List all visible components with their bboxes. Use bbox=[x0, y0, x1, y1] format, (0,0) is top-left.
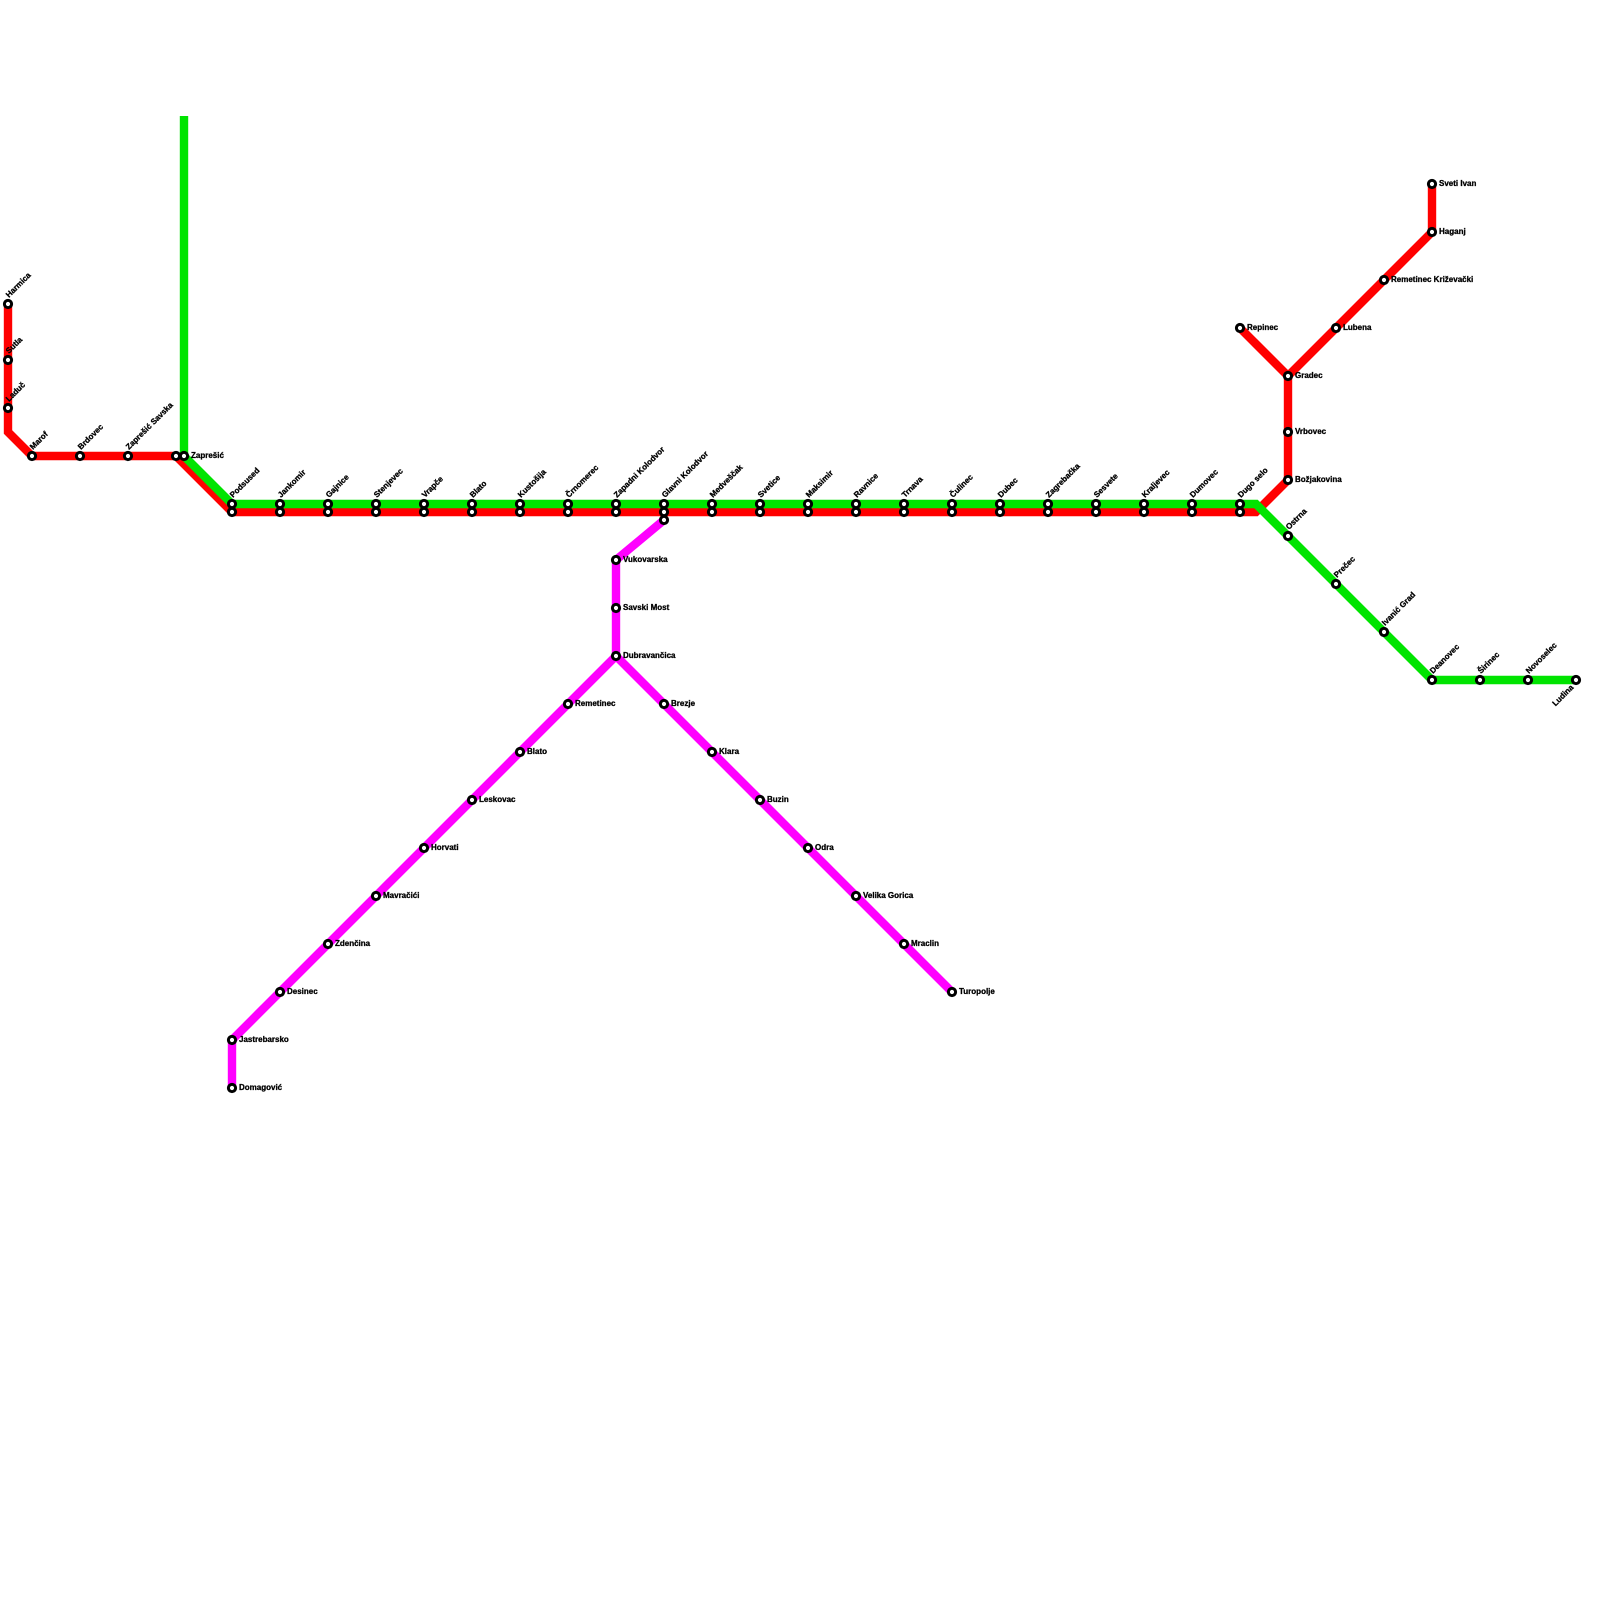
station Svetice (760,504) bbox=[756, 473, 783, 508]
svg-text:Haganj: Haganj bbox=[1439, 227, 1466, 236]
station Velika Gorica (856,896) bbox=[852, 891, 913, 900]
station Mraclin (904,944) bbox=[900, 939, 939, 948]
station Prečec (1336,584) bbox=[1332, 554, 1357, 587]
station Zaprešić (184,456) bbox=[180, 451, 224, 460]
station Zapadni Kolodvor (616,504) bbox=[612, 445, 666, 508]
station stop (808,512) bbox=[804, 508, 811, 515]
station Ravnice (856,504) bbox=[852, 471, 880, 508]
station Dubravančica (616,656) bbox=[612, 651, 676, 660]
station stop (1000,512) bbox=[996, 508, 1003, 515]
station Kustošija (520,504) bbox=[516, 467, 548, 507]
magenta line Zagreb-Jastrebarsko/Turopolje main branch bbox=[232, 520, 664, 1088]
svg-text:Vrbovec: Vrbovec bbox=[1295, 427, 1327, 436]
station stop (1144,512) bbox=[1140, 508, 1147, 515]
svg-text:Dubravančica: Dubravančica bbox=[623, 651, 676, 660]
station stop (232,512) bbox=[228, 508, 235, 515]
station stop (664,520) bbox=[660, 516, 667, 523]
station Ostrna (1288,536) bbox=[1284, 506, 1309, 539]
station Desinec (280,992) bbox=[276, 987, 318, 996]
svg-text:Remetinec Križevački: Remetinec Križevački bbox=[1391, 275, 1473, 284]
station Brezje (664,704) bbox=[660, 699, 695, 708]
svg-text:Odra: Odra bbox=[815, 843, 834, 852]
station stop (712,512) bbox=[708, 508, 715, 515]
station Sutla (8,360) bbox=[4, 335, 25, 364]
station Medveščak (712,504) bbox=[708, 462, 745, 507]
station Dubec (1000,504) bbox=[996, 475, 1020, 507]
station Jankomir (280,504) bbox=[276, 468, 308, 508]
svg-text:Božjakovina: Božjakovina bbox=[1295, 475, 1342, 484]
svg-text:Mraclin: Mraclin bbox=[911, 939, 939, 948]
station Remetinec (568,704) bbox=[564, 699, 616, 708]
station stop (328,512) bbox=[324, 508, 331, 515]
station Dugo selo (1240,504) bbox=[1236, 466, 1270, 508]
station Vrbovec (1288,432) bbox=[1284, 427, 1326, 436]
svg-text:Turopolje: Turopolje bbox=[959, 987, 995, 996]
station stop (1192,512) bbox=[1188, 508, 1195, 515]
station Buzin (760,800) bbox=[756, 795, 788, 804]
station Brdovec (80,456) bbox=[76, 422, 105, 460]
station Deanovec (1432,680) bbox=[1428, 642, 1461, 684]
station Savski Most (616,608) bbox=[612, 603, 669, 612]
svg-text:Savski Most: Savski Most bbox=[623, 603, 670, 612]
green line Zapresic-Ludina bbox=[184, 116, 1576, 680]
station Novoselec (1528,680) bbox=[1524, 640, 1559, 683]
svg-text:Lubena: Lubena bbox=[1343, 323, 1372, 332]
station Širinec (1480,680) bbox=[1476, 650, 1502, 684]
station Laduč (8,408) bbox=[4, 380, 27, 412]
station Blato (472,504) bbox=[468, 479, 489, 508]
red line Harmica-Sveti Ivan bbox=[8, 184, 1432, 512]
svg-text:Sveti Ivan: Sveti Ivan bbox=[1439, 179, 1476, 188]
svg-text:Jastrebarsko: Jastrebarsko bbox=[239, 1035, 289, 1044]
station Zdenčina (328,944) bbox=[324, 939, 370, 948]
svg-text:Gradec: Gradec bbox=[1295, 371, 1323, 380]
station stop (568,512) bbox=[564, 508, 571, 515]
station stop (856,512) bbox=[852, 508, 859, 515]
svg-text:Repinec: Repinec bbox=[1247, 323, 1279, 332]
station Sesvete (1096,504) bbox=[1092, 471, 1120, 507]
svg-text:Klara: Klara bbox=[719, 747, 740, 756]
station stop (1048,512) bbox=[1044, 508, 1051, 515]
station Harmica (8,304) bbox=[4, 270, 33, 307]
station stop (952,512) bbox=[948, 508, 955, 515]
station Repinec (1240,328) bbox=[1236, 323, 1278, 332]
station Trnava (904,504) bbox=[900, 474, 925, 507]
station stop (424,512) bbox=[420, 508, 427, 515]
svg-text:Blato: Blato bbox=[527, 747, 547, 756]
station Sveti Ivan (1432,184) bbox=[1428, 179, 1476, 188]
station Turopolje (952,992) bbox=[948, 987, 995, 996]
station stop (1240,512) bbox=[1236, 508, 1243, 515]
station Zagrebačka (1048,504) bbox=[1044, 461, 1082, 507]
svg-text:Mavračići: Mavračići bbox=[383, 891, 419, 900]
station stop (176,456) bbox=[172, 452, 179, 459]
station Domagović (232,1088) bbox=[228, 1083, 282, 1092]
svg-text:Vukovarska: Vukovarska bbox=[623, 555, 668, 564]
station stop (616,512) bbox=[612, 508, 619, 515]
svg-text:Remetinec: Remetinec bbox=[575, 699, 616, 708]
svg-text:Zdenčina: Zdenčina bbox=[335, 939, 371, 948]
station Remetinec Križevački (1384,280) bbox=[1380, 275, 1473, 284]
station Jastrebarsko (232,1040) bbox=[228, 1035, 289, 1044]
svg-text:Velika Gorica: Velika Gorica bbox=[863, 891, 914, 900]
station Kraljevec (1144,504) bbox=[1140, 468, 1172, 508]
station Ludina (1576,680) bbox=[1551, 676, 1580, 708]
svg-text:Leskovac: Leskovac bbox=[479, 795, 516, 804]
station Klara (712,752) bbox=[708, 747, 739, 756]
station stop (472,512) bbox=[468, 508, 475, 515]
station Zaprešić Savska (128,456) bbox=[124, 400, 175, 459]
station Gradec (1288,376) bbox=[1284, 371, 1323, 380]
station stop (280,512) bbox=[276, 508, 283, 515]
station Blato (520,752) bbox=[516, 747, 547, 756]
station Haganj (1432,232) bbox=[1428, 227, 1465, 236]
magenta line Turopolje branch bbox=[616, 656, 952, 992]
station stop (760,512) bbox=[756, 508, 763, 515]
station Podsused (232,504) bbox=[228, 466, 261, 508]
station Marof (32,456) bbox=[28, 429, 50, 459]
svg-text:Zaprešić: Zaprešić bbox=[191, 451, 224, 460]
station Glavni Kolodvor (664,504) bbox=[660, 449, 710, 507]
station stop (664,512) bbox=[660, 508, 667, 515]
station Črnomerec (568,504) bbox=[564, 463, 601, 508]
svg-text:Horvati: Horvati bbox=[431, 843, 459, 852]
svg-text:Domagović: Domagović bbox=[239, 1083, 283, 1092]
station Maksimir (808,504) bbox=[804, 469, 835, 508]
station Lubena (1336,328) bbox=[1332, 323, 1372, 332]
station stop (376,512) bbox=[372, 508, 379, 515]
station Dumovec (1192,504) bbox=[1188, 467, 1220, 507]
station Čulinec (952,504) bbox=[948, 472, 975, 507]
station Gajnice (328,504) bbox=[324, 472, 351, 507]
station Božjakovina (1288,480) bbox=[1284, 475, 1342, 484]
red line Repinec spur bbox=[1240, 328, 1288, 376]
station Horvati (424,848) bbox=[420, 843, 458, 852]
station Vukovarska (616,560) bbox=[612, 555, 668, 564]
station Mavračići (376,896) bbox=[372, 891, 419, 900]
station Vrapče (424,504) bbox=[420, 474, 445, 507]
station stop (520,512) bbox=[516, 508, 523, 515]
station Leskovac (472,800) bbox=[468, 795, 516, 804]
svg-text:Desinec: Desinec bbox=[287, 987, 318, 996]
station stop (904,512) bbox=[900, 508, 907, 515]
station Odra (808,848) bbox=[804, 843, 834, 852]
svg-text:Brezje: Brezje bbox=[671, 699, 696, 708]
station Stenjevec (376,504) bbox=[372, 466, 405, 507]
svg-text:Buzin: Buzin bbox=[767, 795, 789, 804]
station Ivanić Grad (1384,632) bbox=[1380, 590, 1417, 635]
station stop (1096,512) bbox=[1092, 508, 1099, 515]
